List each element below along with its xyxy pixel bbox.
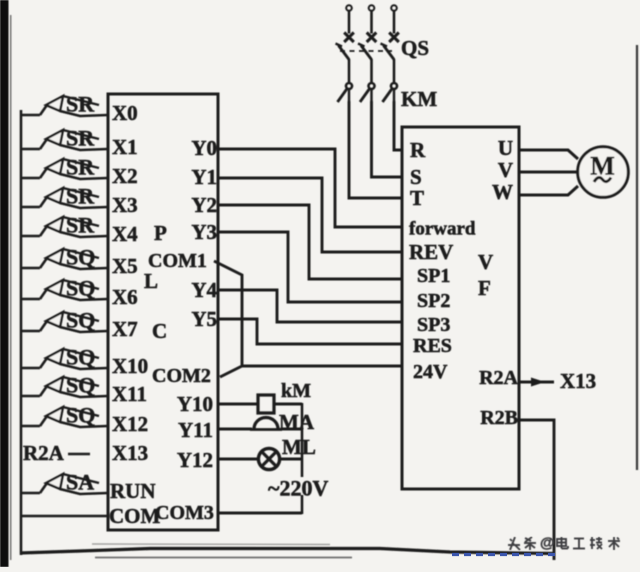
svg-text:U: U xyxy=(498,136,513,160)
wire Y0 to forward xyxy=(218,149,402,227)
svg-text:X7: X7 xyxy=(112,317,138,341)
wire W xyxy=(520,186,578,195)
wire phase to T xyxy=(349,101,402,198)
svg-text:X13: X13 xyxy=(560,369,596,393)
motor M xyxy=(578,147,629,198)
bottom return wire xyxy=(20,549,554,554)
left page-edge black bar xyxy=(0,0,9,567)
svg-text:SQ: SQ xyxy=(66,345,95,370)
svg-text:SR: SR xyxy=(66,155,95,180)
svg-text:R2A: R2A xyxy=(479,367,518,389)
switch SQ xyxy=(22,276,108,301)
inverter block xyxy=(402,127,519,489)
svg-text:SR: SR xyxy=(66,213,95,238)
svg-text:SQ: SQ xyxy=(66,403,95,428)
svg-text:RUN: RUN xyxy=(110,479,156,503)
svg-text:X12: X12 xyxy=(112,412,148,436)
wire V xyxy=(520,171,578,174)
svg-text:SQ: SQ xyxy=(66,245,95,270)
wire Y10 xyxy=(218,403,258,406)
switch SQ xyxy=(22,245,108,270)
supply phase L3 xyxy=(381,5,399,102)
svg-text:SQ: SQ xyxy=(66,276,95,301)
blue dashed watermark line xyxy=(452,553,557,556)
wire Y3 to SP2 xyxy=(218,232,402,302)
svg-text:C: C xyxy=(152,319,167,343)
right page-edge line xyxy=(636,45,638,470)
wire Y1 to REV xyxy=(218,178,402,252)
svg-text:forward: forward xyxy=(409,219,476,240)
svg-text:SP3: SP3 xyxy=(417,314,450,336)
switch SR xyxy=(22,184,108,209)
svg-text:W: W xyxy=(492,180,513,204)
svg-text:MA: MA xyxy=(279,410,315,434)
svg-text:SP2: SP2 xyxy=(417,290,450,312)
svg-text:RES: RES xyxy=(413,335,452,357)
svg-text:X1: X1 xyxy=(112,135,138,159)
PLC block xyxy=(108,94,218,530)
svg-text:T: T xyxy=(410,186,424,210)
svg-text:L: L xyxy=(144,269,158,293)
alarm bell MA xyxy=(250,410,315,434)
svg-text:P: P xyxy=(154,221,167,245)
svg-text:Y3: Y3 xyxy=(191,220,217,244)
svg-text:X13: X13 xyxy=(112,441,148,465)
wire R2A to X13 with arrow xyxy=(520,378,554,387)
220V supply bus xyxy=(301,403,304,477)
supply phase L2 xyxy=(358,5,376,102)
watermark 头条@电工技术 xyxy=(508,537,620,550)
svg-text:V: V xyxy=(498,158,513,182)
svg-text:SP1: SP1 xyxy=(417,265,450,287)
svg-text:Y4: Y4 xyxy=(191,278,217,302)
wire Y12 xyxy=(218,458,258,461)
COM wire xyxy=(21,515,108,517)
svg-text:X5: X5 xyxy=(112,254,138,278)
svg-text:X3: X3 xyxy=(112,193,138,217)
wire Y5 to RES xyxy=(218,319,402,344)
switch SQ xyxy=(22,345,108,370)
wire COM3 xyxy=(218,512,302,515)
svg-text:F: F xyxy=(478,276,491,300)
svg-text:X4: X4 xyxy=(112,222,138,246)
switch SR xyxy=(22,92,108,117)
switch SR xyxy=(22,126,108,151)
svg-text:@: @ xyxy=(540,535,555,552)
svg-text:ML: ML xyxy=(282,435,316,459)
svg-text:24V: 24V xyxy=(413,361,448,383)
wire U xyxy=(520,150,578,159)
svg-text:KM: KM xyxy=(401,87,437,111)
svg-text:COM: COM xyxy=(109,504,161,528)
svg-text:COM2: COM2 xyxy=(152,365,211,387)
svg-text:QS: QS xyxy=(401,36,429,60)
svg-text:X0: X0 xyxy=(112,101,138,125)
svg-text:Y5: Y5 xyxy=(191,307,217,331)
svg-text:Y0: Y0 xyxy=(191,136,217,160)
switch SQ xyxy=(22,373,108,398)
svg-text:R: R xyxy=(410,138,426,162)
svg-text:R2A: R2A xyxy=(23,441,65,465)
wire R2B return xyxy=(520,420,554,560)
wire COM1/COM2 to 24V xyxy=(214,261,402,366)
svg-text:SR: SR xyxy=(66,184,95,209)
wire Y4 to SP3 xyxy=(218,290,402,322)
svg-text:X2: X2 xyxy=(112,164,138,188)
svg-text:SA: SA xyxy=(66,470,94,495)
svg-text:X10: X10 xyxy=(112,354,148,378)
QS linkage dashed xyxy=(340,50,392,52)
wire Y2 to SP1 xyxy=(218,205,402,279)
wire phase to S xyxy=(372,101,403,177)
svg-text:R2B: R2B xyxy=(480,407,518,429)
wire phase to R xyxy=(394,101,402,150)
svg-text:~220V: ~220V xyxy=(268,476,328,501)
switch SR xyxy=(22,155,108,180)
svg-text:SR: SR xyxy=(66,126,95,151)
contactor coil kM xyxy=(258,380,311,413)
switch SA xyxy=(22,470,108,495)
left common bus wire xyxy=(20,110,23,555)
svg-text:Y12: Y12 xyxy=(177,448,213,472)
svg-text:Y2: Y2 xyxy=(191,193,217,217)
svg-text:COM3: COM3 xyxy=(155,502,214,524)
svg-text:Y1: Y1 xyxy=(191,165,217,189)
svg-text:X6: X6 xyxy=(112,285,138,309)
switch SQ xyxy=(22,403,108,428)
svg-text:Y10: Y10 xyxy=(177,392,213,416)
svg-text:X11: X11 xyxy=(112,382,147,406)
thin page crease line xyxy=(10,15,12,560)
svg-text:SQ: SQ xyxy=(66,308,95,333)
svg-text:M: M xyxy=(590,152,615,181)
wire Y11 xyxy=(218,428,252,431)
svg-text:Y11: Y11 xyxy=(178,418,213,442)
supply phase L1 xyxy=(336,5,354,102)
svg-text:kM: kM xyxy=(281,380,311,402)
svg-text:REV: REV xyxy=(409,240,453,264)
lamp ML xyxy=(258,435,315,470)
svg-text:V: V xyxy=(478,250,493,274)
scan ghost lines xyxy=(95,557,352,559)
switch SR xyxy=(22,213,108,238)
switch SQ xyxy=(22,308,108,333)
svg-text:SR: SR xyxy=(66,92,95,117)
svg-text:SQ: SQ xyxy=(66,373,95,398)
node R2A (left) xyxy=(23,441,90,465)
